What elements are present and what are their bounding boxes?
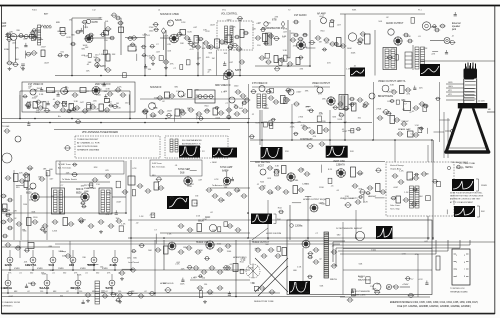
svg-text:1M: 1M xyxy=(187,108,190,110)
tube CRT ion trap band xyxy=(458,103,488,108)
svg-text:10K: 10K xyxy=(127,258,131,260)
capacitor C72 xyxy=(204,109,211,113)
wire vert long x248 xyxy=(248,84,250,238)
svg-text:8.2K: 8.2K xyxy=(20,67,25,69)
wire stub vid27 xyxy=(427,128,429,134)
speaker SP2 jack xyxy=(386,284,391,289)
capacitor C80 xyxy=(293,102,300,106)
terminal board TB1 xyxy=(452,249,470,285)
svg-text:1.5K: 1.5K xyxy=(107,193,112,195)
svg-text:6EP4A: 6EP4A xyxy=(465,166,473,169)
wire vert x262 s2 xyxy=(261,110,263,147)
border frame left xyxy=(1,6,3,315)
wire vert x375 xyxy=(374,30,376,76)
svg-text:MIX: MIX xyxy=(56,22,60,24)
wire agc row long xyxy=(128,219,310,221)
wire vert x47 xyxy=(46,172,48,240)
tube V9 AF amp xyxy=(321,18,327,24)
capacitor fill if25 xyxy=(198,117,204,121)
svg-text:.02: .02 xyxy=(27,291,30,293)
capacitor C137 xyxy=(298,188,305,192)
svg-text:82K: 82K xyxy=(416,201,420,203)
junction dot 27 xyxy=(72,269,74,271)
transformer T7 IF can b xyxy=(59,190,63,212)
capacitor C34 xyxy=(315,36,322,40)
svg-text:VOL CONTROL: VOL CONTROL xyxy=(221,14,238,16)
capacitor C132 xyxy=(304,172,311,176)
wire B+ bus lower xyxy=(2,122,372,124)
capacitor C183 xyxy=(331,264,338,268)
svg-text:6DQ6A: 6DQ6A xyxy=(456,167,464,170)
svg-text:18K: 18K xyxy=(58,251,62,253)
tube V30 AGC keyer xyxy=(260,169,266,175)
capacitor fill vid28 xyxy=(419,127,424,130)
tube CRT electrode 2 xyxy=(465,84,476,86)
tube V12 xyxy=(61,88,68,95)
resistor fill ifstrip13 xyxy=(46,171,50,176)
capacitor fill tunerA5 xyxy=(5,33,10,36)
wire stub dn V34 xyxy=(32,263,34,270)
capacitor C111 xyxy=(78,218,85,222)
tube V15 xyxy=(149,103,156,110)
wire stub ifstrip8 xyxy=(6,213,12,215)
resistor fill tunerB11 xyxy=(123,73,127,78)
capacitor fill audio13 xyxy=(360,32,366,36)
wire stub up V42 xyxy=(111,274,113,280)
capacitor C187 xyxy=(407,39,413,43)
svg-text:10K: 10K xyxy=(378,21,382,23)
border frame bottom xyxy=(2,313,495,315)
junction dot 9 xyxy=(228,118,230,120)
capacitor fill vid1b4 xyxy=(362,104,368,107)
capacitor C54 xyxy=(104,108,111,112)
box tuner notes dashed xyxy=(75,136,160,158)
resistor R14 xyxy=(365,34,371,44)
svg-text:8.2K: 8.2K xyxy=(256,122,261,124)
capacitor C11 xyxy=(94,58,101,62)
wire stub tunerA0 xyxy=(24,51,26,59)
wire y244 extend xyxy=(55,243,110,245)
capacitor fill vert23 xyxy=(391,196,397,200)
resistor fill bot210 xyxy=(240,269,244,273)
wire crt lead down a xyxy=(443,112,445,158)
capacitor fill soundif6 xyxy=(239,60,245,64)
resistor R15 xyxy=(47,88,55,93)
waveform W7 sync scurve xyxy=(167,196,189,209)
capacitor fill ifstrip5 xyxy=(79,220,84,223)
svg-text:6AT8: 6AT8 xyxy=(92,20,99,24)
svg-text:3.3K: 3.3K xyxy=(250,283,255,285)
svg-text:1.5K: 1.5K xyxy=(303,47,308,49)
crt pin 2 xyxy=(469,66,471,72)
svg-text:1M: 1M xyxy=(36,110,39,112)
ground det xyxy=(196,62,200,66)
capacitor C10 xyxy=(105,27,112,31)
tube V40 electrode mark xyxy=(46,282,48,284)
tube V38 electrode mark xyxy=(114,259,116,261)
svg-text:3.3K: 3.3K xyxy=(390,84,395,86)
tube V4 sound IF xyxy=(168,20,174,26)
resistor R22 xyxy=(188,90,193,98)
svg-text:1.5K: 1.5K xyxy=(402,253,407,255)
capacitor C36 xyxy=(323,38,330,42)
resistor fill audio10 xyxy=(265,53,269,58)
capacitor C117 xyxy=(145,189,152,193)
svg-text:4.7K: 4.7K xyxy=(162,32,167,34)
resistor fill tunerA1 xyxy=(31,34,35,40)
capacitor C42 xyxy=(72,93,79,97)
svg-text:10K: 10K xyxy=(336,170,340,172)
capacitor fill vid1b5 xyxy=(293,132,298,135)
crt pin 3 xyxy=(472,67,474,72)
resistor R36 xyxy=(27,218,32,226)
resistor R19 xyxy=(69,104,74,111)
transformer T9 vert out b xyxy=(415,186,419,208)
junction dot 44 xyxy=(432,237,434,239)
svg-text:4.7K: 4.7K xyxy=(290,123,295,125)
resistor fill vert16 xyxy=(326,199,329,206)
svg-text:120K: 120K xyxy=(319,187,324,189)
wire vert x413 xyxy=(412,45,414,70)
svg-text:300 OHM BALANCED: 300 OHM BALANCED xyxy=(182,139,202,142)
wire IF row top xyxy=(20,90,130,92)
svg-text:47K: 47K xyxy=(170,64,174,66)
waveform W8 bracket xyxy=(476,179,479,191)
terminal board tick L1 xyxy=(454,261,457,263)
capacitor fill if26 xyxy=(234,105,239,108)
capacitor C79 xyxy=(284,98,291,102)
wire horiz y14 audio xyxy=(340,13,425,15)
capacitor C141 xyxy=(380,190,387,194)
svg-text:47K: 47K xyxy=(318,94,322,96)
capacitor fill vid16 xyxy=(249,135,255,139)
tube CRT electrode 1 xyxy=(464,88,475,90)
svg-text:2.2K: 2.2K xyxy=(305,281,310,283)
capacitor C4 xyxy=(12,63,18,67)
svg-text:10K: 10K xyxy=(38,177,42,179)
ground trap xyxy=(151,62,155,66)
node test arrow xyxy=(447,166,450,169)
capacitor fill ifstrip9 xyxy=(2,208,7,211)
resistor fill soundif0 xyxy=(159,56,163,61)
wire vert x164 xyxy=(163,240,165,270)
transformer T8 IF can b xyxy=(107,190,111,212)
svg-text:270K: 270K xyxy=(150,215,155,217)
wire vert x418 s4 xyxy=(417,254,419,297)
svg-text:18K: 18K xyxy=(195,37,199,39)
tube V50 audio out dark xyxy=(394,37,402,45)
svg-text:Lead Termnl: Lead Termnl xyxy=(128,262,140,264)
capacitor fill cap bot12 xyxy=(25,284,28,288)
wire CRT anode lead xyxy=(445,130,451,132)
svg-text:FINE: FINE xyxy=(4,49,10,51)
svg-text:CONTRAST: CONTRAST xyxy=(300,138,313,141)
terminal board tick L3 xyxy=(454,276,457,278)
capacitor fill soundif11 xyxy=(150,45,156,49)
capacitor C15 xyxy=(131,36,138,40)
transformer T2 audio output primary xyxy=(385,49,389,68)
capacitor C113 xyxy=(98,220,105,224)
tube V2b osc triode xyxy=(95,63,99,67)
capacitor C31 xyxy=(265,60,272,64)
svg-text:22K: 22K xyxy=(84,27,88,29)
electrolytic C6 xyxy=(31,51,38,55)
capacitor fill bot16 xyxy=(131,249,136,252)
capacitor fill audio27 xyxy=(449,40,455,44)
capacitor C196 xyxy=(0,194,6,198)
capacitor C170 xyxy=(225,266,232,270)
tube V44 xyxy=(206,241,214,249)
wire tuner input xyxy=(5,36,37,38)
tube CRT electrode 4 xyxy=(465,91,476,93)
svg-text:Vertical Sweep: Vertical Sweep xyxy=(390,164,405,167)
tube V17 xyxy=(229,97,235,103)
capacitor fill ifstrip10 xyxy=(81,205,86,208)
capacitor C178 xyxy=(259,286,266,290)
capacitor C102 xyxy=(5,176,12,180)
capacitor fill ifstrip2 xyxy=(71,172,77,176)
capacitor C118 xyxy=(158,186,165,190)
svg-text:8.2K: 8.2K xyxy=(387,92,392,94)
capacitor fill vert12 xyxy=(278,210,284,214)
resistor fill if1b1 xyxy=(87,103,91,109)
svg-text:56K: 56K xyxy=(358,188,362,190)
transformer T6 frame xyxy=(339,95,348,110)
capacitor fill if1b0 xyxy=(63,89,69,93)
capacitor fill vert14 xyxy=(366,192,371,195)
svg-text:6BZ6: 6BZ6 xyxy=(76,193,82,195)
wire IF strip link2 xyxy=(112,196,126,198)
capacitor C105 xyxy=(7,218,14,222)
svg-text:56K: 56K xyxy=(208,70,212,72)
tube V25 2nd IF xyxy=(31,193,39,201)
svg-text:100K: 100K xyxy=(347,48,352,50)
tube V18 xyxy=(259,86,265,92)
waveform W12 horiz discrim xyxy=(251,214,272,225)
wire horiz y244 xyxy=(110,243,340,245)
capacitor fill tunerC3 xyxy=(32,36,38,40)
capacitor C123 xyxy=(234,188,241,192)
ground horiz xyxy=(203,300,207,304)
svg-text:1M: 1M xyxy=(116,103,119,105)
wire vert x126 s3 xyxy=(125,161,127,213)
svg-text:5AT8: 5AT8 xyxy=(235,68,242,72)
svg-text:120K: 120K xyxy=(302,184,307,186)
resistor fill vert25 xyxy=(426,196,431,201)
capacitor fill cap bot33 xyxy=(425,281,428,285)
resistor R12 xyxy=(296,58,300,65)
svg-text:GRID: GRID xyxy=(448,82,453,84)
waveform W3 video xyxy=(179,146,200,158)
svg-text:82K: 82K xyxy=(267,178,271,180)
junction dot 47 xyxy=(329,139,331,141)
svg-text:4.7K: 4.7K xyxy=(208,294,213,296)
svg-text:270K: 270K xyxy=(293,46,298,48)
wire vert x292 s2 xyxy=(291,104,293,140)
resistor R1 xyxy=(30,35,35,39)
tube V35 5U8 xyxy=(50,257,56,263)
wire bottom long bus xyxy=(2,296,345,298)
wire sound if vert xyxy=(165,38,167,60)
svg-text:.02: .02 xyxy=(66,291,69,293)
svg-text:4.7K: 4.7K xyxy=(191,278,196,280)
wire stub up V36 xyxy=(72,250,74,257)
capacitor C136 xyxy=(283,190,290,194)
svg-text:3RD IF: 3RD IF xyxy=(76,189,84,191)
tube CRT base xyxy=(464,69,478,79)
capacitor C64 xyxy=(244,98,251,102)
potentiometer R28 contrast xyxy=(306,144,313,149)
svg-text:25 100V: 25 100V xyxy=(478,101,485,103)
svg-text:4.7K: 4.7K xyxy=(190,49,195,51)
capacitor C9 xyxy=(100,33,106,37)
svg-text:1ST AUDIO: 1ST AUDIO xyxy=(294,14,307,17)
svg-text:330: 330 xyxy=(96,273,99,275)
tube V33 12C5 xyxy=(7,257,13,263)
resistor R44 xyxy=(351,167,356,177)
junction dot 35 xyxy=(154,292,156,294)
resistor R26 xyxy=(352,103,357,111)
wire horiz y241 xyxy=(60,240,345,242)
capacitor C165 xyxy=(225,244,232,248)
capacitor fill cap if1b6 xyxy=(47,101,50,105)
crt lead 3 xyxy=(446,91,464,93)
svg-text:SEPARATE DIAGRAM: SEPARATE DIAGRAM xyxy=(77,149,99,152)
capacitor fill bot34 xyxy=(408,293,414,297)
resistor fill sync0 xyxy=(151,213,155,218)
capacitor fill tunerB7 xyxy=(82,20,88,24)
box quadrature can dashed xyxy=(217,21,253,50)
module Z1 shield xyxy=(195,90,215,103)
capacitor fill bot11 xyxy=(30,282,36,286)
tube V21 video amp xyxy=(327,97,335,105)
resistor R42 xyxy=(282,166,287,174)
svg-text:47K: 47K xyxy=(167,22,171,24)
wire stub vert15 xyxy=(363,193,365,203)
svg-text:8.2K: 8.2K xyxy=(67,37,72,39)
svg-text:NOTE: PULSE SHOWN AT POINT WI: NOTE: PULSE SHOWN AT POINT WILL xyxy=(450,192,482,195)
capacitor C152 xyxy=(130,268,137,272)
capacitor fill bot111 xyxy=(24,248,30,252)
transformer T2 frame xyxy=(383,48,397,70)
svg-text:3.3K: 3.3K xyxy=(47,28,52,30)
svg-text:22K: 22K xyxy=(287,175,291,177)
potentiometer R47 vert lin xyxy=(344,203,351,208)
svg-text:.0047: .0047 xyxy=(403,121,409,123)
svg-text:47MFD: 47MFD xyxy=(14,268,21,270)
tube CRT electrode 5 xyxy=(464,100,475,102)
wire to tuner arrow xyxy=(60,181,110,183)
svg-text:82K: 82K xyxy=(333,117,337,119)
tube V41 electrode mark xyxy=(77,282,79,284)
svg-text:56K: 56K xyxy=(320,285,324,287)
capacitor fill if11 xyxy=(66,109,72,113)
capacitor C153 xyxy=(85,293,92,297)
capacitor fill tunerB10 xyxy=(85,35,91,39)
capacitor C114 xyxy=(108,224,115,228)
wire 4th IF row xyxy=(252,86,330,88)
capacitor C25 xyxy=(255,36,262,40)
capacitor C21 xyxy=(208,45,215,49)
svg-text:2ND IF: 2ND IF xyxy=(26,189,34,191)
wire stub tunerC1 xyxy=(38,39,43,41)
wire osc link xyxy=(83,25,85,34)
svg-text:39K: 39K xyxy=(16,30,20,32)
capacitor C65 xyxy=(142,110,149,114)
wire vert x240 xyxy=(239,18,241,76)
svg-text:600: 600 xyxy=(60,296,63,298)
node test point C xyxy=(281,21,285,27)
tube V37 electrode mark xyxy=(93,259,95,261)
socket yoke plug spokes xyxy=(248,264,258,278)
wire stub bot13 xyxy=(122,268,134,270)
svg-text:82K: 82K xyxy=(32,212,36,214)
capacitor C158 xyxy=(149,291,156,295)
wire top section ground bus xyxy=(55,75,345,77)
svg-text:918: 918 xyxy=(69,263,74,267)
resistor R21 xyxy=(165,92,170,98)
svg-text:1M: 1M xyxy=(212,58,215,60)
resistor R30 xyxy=(404,102,411,111)
capacitor C150 xyxy=(15,246,22,250)
tube CRT bell right edge xyxy=(472,108,491,152)
wire vert x203 xyxy=(202,42,204,76)
tube V36 918 xyxy=(70,257,76,263)
wire stub tunerB6 xyxy=(91,19,103,21)
wire return 3 xyxy=(336,247,460,249)
wire bottom bus row1 xyxy=(2,269,250,271)
svg-text:FLYBACK TEST: FLYBACK TEST xyxy=(452,161,469,164)
capacitor C198 xyxy=(5,213,11,217)
box service note xyxy=(56,161,124,174)
tube V1 UHF osc xyxy=(10,34,17,41)
wire stub sync6 xyxy=(226,171,228,179)
svg-text:18K: 18K xyxy=(81,186,85,188)
coil L1 antenna xyxy=(38,25,41,45)
capacitor C48 xyxy=(44,108,51,112)
capacitor C171 xyxy=(197,286,204,290)
capacitor fill soundif21 xyxy=(206,45,212,49)
svg-text:2.2K: 2.2K xyxy=(95,109,100,111)
wire vert x60 s3 xyxy=(59,161,61,213)
svg-text:.0047: .0047 xyxy=(41,47,47,49)
wire return 1 xyxy=(333,241,495,243)
svg-text:4.7K: 4.7K xyxy=(214,179,219,181)
wire stub tunerA3 xyxy=(35,28,37,40)
wire IF vert a xyxy=(19,91,21,119)
junction dot 43 xyxy=(427,237,429,239)
svg-text:VERT LINEARITY: VERT LINEARITY xyxy=(340,197,358,200)
capacitor C83 xyxy=(357,98,364,102)
svg-text:AT TOP FOR ADJUSTMENT: AT TOP FOR ADJUSTMENT xyxy=(450,201,474,204)
capacitor fill soundif24 xyxy=(228,46,233,49)
wire vert x356 s23 xyxy=(355,210,357,238)
tube V34 12BY7A xyxy=(30,257,36,263)
capacitor C180 xyxy=(313,248,320,252)
svg-text:18K: 18K xyxy=(180,43,184,45)
resistor R60 xyxy=(3,204,8,212)
svg-text:22K: 22K xyxy=(287,57,291,59)
tube V51 tuner RF xyxy=(2,153,12,163)
junction dot 7 xyxy=(165,118,167,120)
capacitor C29 xyxy=(293,20,299,24)
tube V32 vert osc xyxy=(337,169,346,178)
svg-text:.0047: .0047 xyxy=(167,110,173,112)
resistor fill bot35 xyxy=(366,277,370,284)
capacitor C202 xyxy=(349,97,355,101)
svg-text:10K: 10K xyxy=(264,104,268,106)
svg-text:82K: 82K xyxy=(94,167,98,169)
